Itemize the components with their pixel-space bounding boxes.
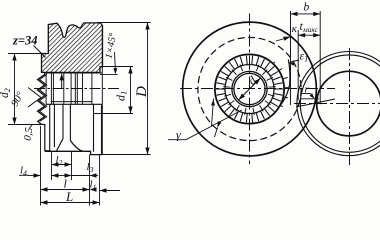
small wheel inner circle [317, 71, 380, 136]
svg-text:D: D [134, 86, 150, 98]
outer circle [183, 22, 317, 156]
dimension D [97, 22, 151, 24]
tooth ring outer [215, 54, 284, 123]
teeth back edge [40, 75, 47, 122]
chain links over teeth (right sector) [266, 57, 290, 106]
pocket center marks [223, 63, 275, 115]
90 degree groove angle [28, 88, 41, 108]
dimension d (bore) [239, 78, 261, 100]
wheel lower outline left [42, 125, 50, 151]
dimension l [41, 189, 90, 191]
svg-text:к: к [292, 23, 298, 35]
dimension l3 [62, 175, 72, 177]
axis centerline [34, 88, 120, 90]
dimension L [41, 202, 100, 204]
hub circle [232, 71, 267, 106]
svg-text:0,5: 0,5 [23, 127, 36, 142]
ring teeth radial lines [216, 56, 283, 123]
dimension d2 [8, 53, 42, 55]
svg-text:b: b [304, 2, 310, 14]
dimension d1 [100, 66, 133, 68]
chamfer leader arrow [100, 73, 118, 75]
inner verticals [46, 26, 102, 155]
pitch circle (dashed) [198, 37, 301, 140]
dimension k [276, 37, 291, 41]
dimension b [291, 13, 321, 15]
sprocket teeth profile (side silhouette) [38, 72, 45, 124]
bottom extension lines [41, 126, 100, 206]
big wheel horizontal centerline [180, 88, 335, 90]
angle gamma lines [212, 99, 214, 127]
chain peel-off arc [278, 60, 290, 109]
dimension l1 [90, 187, 97, 191]
bore lines [46, 73, 102, 104]
mesh detail lines [296, 99, 335, 107]
lower verticals [50, 104, 102, 154]
bore circle [234, 73, 265, 104]
small wheel centerlines [294, 103, 380, 105]
rim section outline (hatched) [42, 23, 103, 73]
svg-text:L: L [65, 189, 73, 204]
bottom edge with step [45, 151, 103, 154]
dimension t_max [298, 34, 320, 36]
small wheel outer circles [297, 52, 380, 156]
chain strand edges (b extension lines) [291, 11, 321, 105]
dimension l2 [52, 164, 72, 166]
hub cone flanks [57, 139, 83, 152]
big wheel vertical centerline [249, 14, 251, 165]
small arrow in bore [61, 74, 63, 88]
tooth ring inner [225, 65, 274, 114]
